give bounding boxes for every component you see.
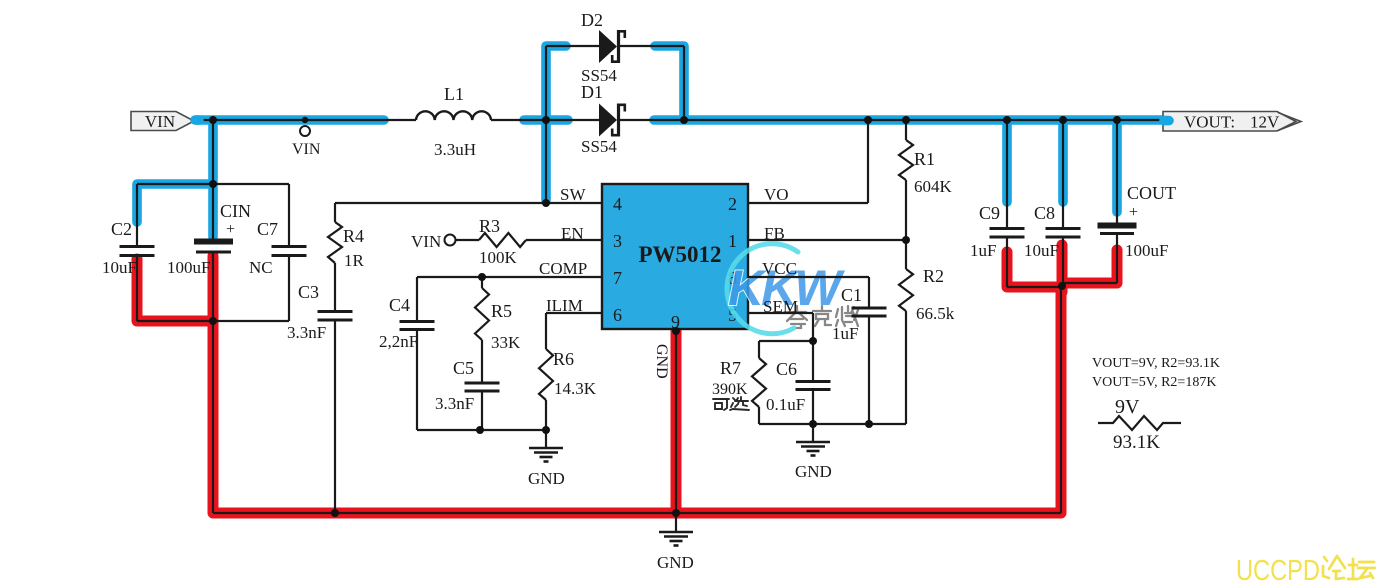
resistor R6: [539, 349, 553, 400]
wire GND pin9 to bus: [675, 329, 677, 513]
svg-text:604K: 604K: [914, 177, 953, 196]
svg-text:0.1uF: 0.1uF: [766, 395, 805, 414]
VIN flag: [131, 112, 194, 132]
wire blue nub into VOUT flag: [1164, 116, 1169, 126]
node C6 ground: [809, 420, 817, 428]
svg-text:3.3nF: 3.3nF: [435, 394, 474, 413]
wire blue highlight D2 right: [655, 46, 684, 118]
svg-text:12V: 12V: [1250, 113, 1280, 132]
wire blue highlight VIN branch down: [208, 120, 218, 184]
node SEM junction: [809, 337, 817, 345]
wire ILIM down to R6: [545, 313, 547, 349]
wire SW to pin4: [335, 202, 602, 204]
wire compensation ground rail: [417, 429, 546, 431]
svg-text:GND: GND: [657, 553, 694, 572]
svg-text:R5: R5: [491, 301, 512, 321]
svg-text:L1: L1: [444, 84, 464, 104]
wire red highlight C9 ground: [1007, 252, 1056, 287]
svg-text:C8: C8: [1034, 203, 1055, 223]
wire C4 bottom lead: [416, 329, 418, 430]
svg-text:VIN: VIN: [411, 232, 441, 251]
wire C5 bottom lead: [481, 391, 483, 430]
wire VCC pin8: [748, 276, 869, 278]
VIN testpoint circle: [300, 126, 310, 136]
wire red highlight COUT ground: [1063, 250, 1117, 283]
wire R5 to C5: [481, 340, 483, 383]
svg-text:C2: C2: [111, 219, 132, 239]
watermark text quark-micro glyphs: [787, 306, 858, 328]
wire D2 right vertical: [683, 46, 685, 120]
svg-text:10uF: 10uF: [1024, 241, 1059, 260]
svg-text:+: +: [1129, 204, 1138, 221]
wire C6 top lead: [812, 341, 814, 381]
node diode left junction: [542, 116, 550, 124]
svg-text:C9: C9: [979, 203, 1000, 223]
wire R4 to C3: [334, 263, 336, 311]
wire VIN branch down: [212, 120, 214, 184]
svg-text:VOUT:: VOUT:: [1184, 113, 1235, 132]
node C3 bus: [331, 509, 339, 517]
wire blue highlight SW: [541, 122, 551, 200]
wire red highlight GND pin 9: [671, 331, 682, 513]
svg-text:VO: VO: [764, 185, 789, 204]
svg-text:1R: 1R: [344, 251, 365, 270]
wire SEM pin5: [748, 312, 813, 314]
svg-text:2,2nF: 2,2nF: [379, 332, 418, 351]
svg-text:D1: D1: [581, 82, 603, 102]
wire ground bus right vertical: [1060, 283, 1062, 513]
wire right ground rail: [759, 423, 906, 425]
wire C8 bottom lead: [1062, 237, 1064, 286]
wire CIN top lead: [212, 184, 214, 240]
svg-text:R1: R1: [914, 149, 935, 169]
svg-text:R7: R7: [720, 358, 741, 378]
wire input cap bottom rail: [137, 320, 289, 322]
node C8 tap: [1059, 116, 1067, 124]
svg-text:R2: R2: [923, 266, 944, 286]
wire D2 cathode to right: [620, 45, 684, 47]
wire C9 bottom lead: [1006, 237, 1008, 287]
wire blue highlight at diode junction: [524, 115, 568, 125]
svg-text:ILIM: ILIM: [546, 296, 583, 315]
node VO output: [864, 116, 872, 124]
wire VIN main blue highlight left: [196, 115, 384, 125]
wire blue highlight C2 branch: [137, 184, 210, 222]
svg-text:C5: C5: [453, 358, 474, 378]
node pin9 exit: [672, 327, 680, 335]
wire D1 cathode to VOUT: [620, 119, 1167, 121]
watermark UCCPD forum: [1236, 555, 1375, 584]
resistor R2: [899, 269, 913, 311]
svg-text:+: +: [226, 221, 235, 238]
svg-text:NC: NC: [249, 258, 273, 277]
svg-text:EN: EN: [561, 224, 584, 243]
svg-text:390K: 390K: [712, 381, 748, 398]
svg-text:C6: C6: [776, 359, 797, 379]
svg-text:COMP: COMP: [539, 259, 587, 278]
node SW junction: [542, 199, 550, 207]
svg-text:4: 4: [613, 194, 622, 214]
node FB junction: [902, 236, 910, 244]
wire R1 bottom lead: [905, 180, 907, 240]
wire C3 bottom lead to bus: [334, 320, 336, 513]
wire red highlight ground bus: [213, 256, 1061, 513]
svg-text:R4: R4: [343, 226, 364, 246]
wire FB pin1: [748, 239, 906, 241]
node GND bus: [672, 509, 680, 517]
node R6 ground: [542, 426, 550, 434]
capacitor CIN polarized: [194, 242, 233, 253]
svg-text:SEM: SEM: [763, 297, 798, 316]
svg-text:PW5012: PW5012: [638, 242, 721, 267]
svg-text:100K: 100K: [479, 248, 518, 267]
wire C4 top lead: [416, 277, 418, 321]
svg-text:GND: GND: [653, 344, 670, 379]
wire C1 bottom lead: [868, 316, 870, 424]
wire R1 top lead: [905, 120, 907, 140]
capacitor C8: [1046, 229, 1081, 238]
inductor L1: [416, 111, 491, 120]
capacitor C3: [318, 312, 353, 321]
wire COMP to pin7: [417, 276, 602, 278]
wire C8 top lead: [1062, 120, 1064, 228]
wire R7 bottom lead: [758, 407, 760, 424]
svg-text:66.5k: 66.5k: [916, 304, 955, 323]
wire C7 bottom lead: [288, 255, 290, 321]
node C9 tap: [1003, 116, 1011, 124]
wire D2 anode: [546, 45, 599, 47]
wire R5 top lead: [481, 277, 483, 288]
VOUT flag: [195, 112, 1301, 132]
resistor R7: [752, 358, 766, 407]
wire CIN bottom lead to bus: [212, 253, 214, 513]
svg-text:100uF: 100uF: [167, 258, 210, 277]
svg-text:VOUT=9V, R2=93.1K: VOUT=9V, R2=93.1K: [1092, 356, 1220, 371]
node diode right junction: [680, 116, 688, 124]
wire D2 left vertical: [545, 46, 547, 120]
wire C7 top lead: [288, 184, 290, 246]
wire red highlight C2 ground: [137, 259, 208, 321]
wire R4 top lead: [334, 203, 336, 222]
svg-text:GND: GND: [528, 469, 565, 488]
resistor R5: [475, 288, 489, 340]
wire VO pin2: [748, 202, 868, 204]
svg-text:D2: D2: [581, 10, 603, 30]
svg-text:C1: C1: [841, 285, 862, 305]
svg-text:C4: C4: [389, 295, 410, 315]
node VIN branch: [209, 116, 217, 124]
wire C2 top lead: [136, 184, 138, 246]
resistor R3: [479, 233, 526, 247]
node C5 ground: [476, 426, 484, 434]
svg-text:33K: 33K: [491, 333, 521, 352]
node C1 ground: [865, 420, 873, 428]
capacitor C6: [796, 382, 831, 390]
wire blue nub at VIN flag: [195, 115, 199, 125]
wire SW vertical: [545, 120, 547, 203]
ground symbol under C6: [796, 424, 830, 456]
wire C9 top lead: [1006, 120, 1008, 228]
svg-text:C3: C3: [298, 282, 319, 302]
capacitor C2: [120, 247, 155, 256]
wire COUT ground corner: [1062, 282, 1117, 284]
svg-text:UCCPD: UCCPD: [1236, 555, 1320, 584]
wire VO up to output: [867, 120, 869, 203]
label R7 optional glyphs: [713, 397, 749, 410]
wire red highlight C8 ground: [1057, 245, 1068, 292]
svg-text:FB: FB: [764, 224, 785, 243]
svg-text:6: 6: [613, 305, 622, 325]
wire R2 bottom lead: [905, 311, 907, 424]
wire VOUT main blue highlight: [654, 115, 1166, 125]
svg-text:2: 2: [728, 194, 737, 214]
svg-text:3.3uH: 3.3uH: [434, 140, 476, 159]
wire R7 top lead: [758, 341, 760, 358]
op-amp U1 PW5012 IC body: [602, 184, 748, 332]
wire EN testpoint to R3: [456, 239, 480, 241]
wire blue highlight D2 left: [546, 46, 566, 118]
wire blue highlight C9 lead: [1002, 122, 1012, 202]
wire C2 bottom lead: [136, 255, 138, 321]
capacitor COUT polarized: [1098, 226, 1137, 234]
svg-text:CIN: CIN: [220, 201, 251, 221]
node R1 top: [902, 116, 910, 124]
svg-text:SS54: SS54: [581, 137, 617, 156]
svg-text:COUT: COUT: [1127, 183, 1176, 203]
wire blue highlight COUT lead: [1112, 122, 1122, 212]
wire SEM down: [812, 313, 814, 341]
svg-text:VIN: VIN: [292, 141, 321, 158]
svg-text:1: 1: [728, 231, 737, 251]
capacitor C1: [852, 308, 887, 316]
svg-text:VCC: VCC: [762, 259, 797, 278]
resistor R4: [328, 222, 342, 263]
wire input cap top rail: [137, 183, 289, 185]
svg-text:R6: R6: [553, 349, 574, 369]
capacitor C4: [400, 322, 435, 330]
wire L1 to D1: [491, 119, 599, 121]
wire SEM node to R7: [759, 340, 813, 342]
node VIN testpoint: [302, 117, 308, 123]
watermark logo: [727, 244, 858, 334]
wire C6 bottom lead: [812, 389, 814, 424]
svg-text:SW: SW: [560, 185, 586, 204]
wire C1 top lead: [868, 277, 870, 308]
node input ground join: [209, 317, 217, 325]
resistor R1: [899, 140, 913, 180]
diode D1 SS54: [599, 104, 625, 137]
wire R6 bottom lead: [545, 400, 547, 430]
svg-text:1uF: 1uF: [832, 324, 858, 343]
wire blue highlight CIN lead: [208, 186, 218, 237]
node C8 ground junction: [1058, 282, 1066, 290]
svg-text:10uF: 10uF: [102, 258, 137, 277]
diode D2 SS54: [599, 30, 625, 63]
ground symbol under R6: [529, 430, 563, 462]
wire COUT top lead: [1116, 120, 1118, 223]
svg-text:3: 3: [613, 231, 622, 251]
svg-text:14.3K: 14.3K: [554, 379, 597, 398]
wire blue highlight C8 lead: [1058, 122, 1068, 202]
node input cap rail: [209, 180, 217, 188]
node COUT tap: [1113, 116, 1121, 124]
svg-text:GND: GND: [795, 462, 832, 481]
wire ILIM to pin6: [546, 312, 602, 314]
wire COUT bottom lead: [1116, 233, 1118, 283]
wire main line VIN to L1: [194, 119, 416, 121]
node COMP junction: [478, 273, 486, 281]
resistor example symbol: [1098, 416, 1181, 430]
svg-text:VIN: VIN: [145, 112, 175, 131]
wire ground bus horizontal: [213, 512, 1061, 514]
ground symbol main bus: [659, 513, 693, 546]
svg-text:1uF: 1uF: [970, 241, 996, 260]
wire R3 to pin3: [526, 239, 602, 241]
capacitor C9: [990, 229, 1025, 238]
svg-text:3.3nF: 3.3nF: [287, 323, 326, 342]
capacitor C5: [465, 383, 500, 391]
wire R2 top lead: [905, 240, 907, 269]
svg-text:93.1K: 93.1K: [1113, 432, 1160, 453]
svg-text:R3: R3: [479, 216, 500, 236]
svg-text:7: 7: [613, 268, 622, 288]
wire C9 ground corner: [1007, 286, 1062, 288]
svg-text:C7: C7: [257, 219, 278, 239]
capacitor C7: [272, 247, 307, 256]
svg-text:100uF: 100uF: [1125, 241, 1168, 260]
EN VIN testpoint circle: [445, 235, 456, 246]
svg-text:VOUT=5V, R2=187K: VOUT=5V, R2=187K: [1092, 375, 1216, 390]
